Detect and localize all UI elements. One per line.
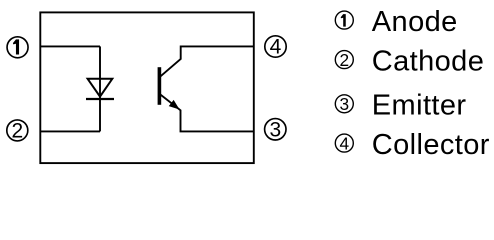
pin 2 circle (7, 120, 28, 141)
pin 4 circle (265, 36, 286, 57)
pin 1 number (13, 39, 19, 54)
wire pin2 cathode bottom-left (40, 130, 100, 132)
wire collector to pin4 (161, 46, 254, 76)
svg-text:3: 3 (269, 119, 281, 142)
svg-text:Anode: Anode (372, 6, 458, 38)
LED D1 cathode bar (86, 98, 114, 100)
svg-text:2: 2 (339, 50, 349, 70)
svg-text:Emitter: Emitter (372, 90, 467, 122)
wire emitter to pin3 (161, 95, 254, 132)
svg-text:4: 4 (270, 36, 282, 59)
svg-text:4: 4 (339, 133, 349, 153)
wire LED vertical lead (99, 46, 101, 131)
svg-text:2: 2 (11, 120, 23, 143)
legend pin 4 circle (335, 134, 353, 152)
package outline U1 (40, 12, 254, 163)
svg-text:Cathode: Cathode (372, 45, 484, 77)
legend pin 1 number (341, 14, 346, 26)
pin 3 circle (265, 119, 286, 140)
LED D1 triangle (88, 79, 113, 97)
svg-text:3: 3 (339, 94, 349, 114)
legend pin 3 circle (335, 95, 353, 113)
pin 1 circle (7, 37, 28, 58)
wire pin1 anode top-left (40, 45, 100, 47)
legend pin 1 circle (335, 11, 353, 29)
phototransistor Q1 emitter arrowhead (170, 101, 179, 109)
phototransistor Q1 base bar (158, 67, 162, 105)
svg-text:Collector: Collector (372, 129, 490, 161)
legend pin 2 circle (335, 51, 353, 69)
